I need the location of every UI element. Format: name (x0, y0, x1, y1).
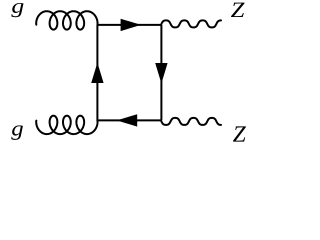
incoming gluon g2 (bottom left curly line) (36, 116, 97, 134)
quark box right edge (fermion line) (160, 25, 162, 121)
quark box left edge (fermion line) (96, 25, 98, 121)
label g (bottom incoming gluon) (11, 125, 23, 140)
outgoing Z boson line (top right wavy line) (161, 20, 221, 27)
label g (top incoming gluon) (11, 3, 23, 17)
arrow up on left edge (91, 63, 103, 83)
arrow left on bottom edge (117, 114, 138, 126)
quark box top edge (fermion line) (97, 24, 161, 26)
incoming gluon g1 (top left curly line) (36, 11, 97, 29)
label Z (top outgoing boson) (231, 3, 245, 17)
quark box bottom edge (fermion line) (97, 119, 161, 121)
arrow right on top edge (121, 19, 142, 31)
arrow down on right edge (155, 63, 167, 84)
label Z (bottom outgoing boson) (233, 126, 246, 141)
outgoing Z boson line (bottom right wavy line) (161, 118, 221, 125)
